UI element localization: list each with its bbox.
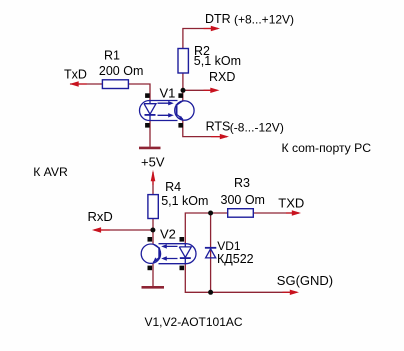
arrow TXD right <box>292 210 301 215</box>
wire V1 collector to node RXD <box>182 90 184 100</box>
arrow RXD right <box>210 88 219 93</box>
diode VD1 <box>205 248 216 258</box>
svg-text:R4: R4 <box>165 180 181 194</box>
resistor R1 <box>102 80 128 89</box>
resistor R3 <box>228 209 254 218</box>
resistor R4 <box>148 195 158 219</box>
wire TxD to R1 <box>70 83 102 85</box>
svg-text:К AVR: К AVR <box>33 165 68 179</box>
arrow +5V up <box>151 170 156 182</box>
svg-text:V1,V2-AOT101AC: V1,V2-AOT101AC <box>145 315 243 329</box>
pad V1 pin2 <box>145 123 150 128</box>
node junction RxD <box>150 228 155 233</box>
svg-text:5,1 kOm: 5,1 kOm <box>161 194 208 208</box>
wire node RXD to R2 <box>182 73 184 90</box>
wire V2 LED anode to node VD1 top and R3 <box>185 213 227 244</box>
wire R3 to TXD <box>253 212 299 214</box>
wire R1 to V1 LED anode <box>128 84 150 101</box>
node junction RXD <box>181 88 186 93</box>
wire V1 emitter to RTS <box>183 121 227 137</box>
pad V1 pin1 <box>145 93 150 98</box>
wire node RxD left <box>94 229 153 231</box>
wire +5V to R4 <box>152 172 154 195</box>
svg-text:V2: V2 <box>160 227 176 242</box>
svg-text:TxD: TxD <box>64 67 87 81</box>
ground GND1 <box>139 147 161 150</box>
svg-text:(-8...-12V): (-8...-12V) <box>230 120 284 134</box>
svg-text:(+8...+12V): (+8...+12V) <box>234 12 294 26</box>
svg-text:VD1: VD1 <box>217 239 241 253</box>
svg-text:RTS: RTS <box>206 120 231 134</box>
arrow SG right <box>290 290 299 295</box>
svg-text:SG(GND): SG(GND) <box>277 273 333 288</box>
ground GND2 <box>142 286 165 289</box>
resistor R2 <box>178 49 188 74</box>
pad V2 pin2 <box>148 266 153 271</box>
optocoupler V2 <box>141 244 196 264</box>
svg-text:RxD: RxD <box>88 209 113 224</box>
wire node RxD to V2 collector <box>152 230 154 244</box>
wire V1 LED cathode to ground <box>149 121 151 147</box>
node junction VD1 bottom SG <box>208 290 213 295</box>
optocoupler V1 <box>140 101 195 121</box>
svg-text:К com-порту PC: К com-порту PC <box>282 141 372 155</box>
svg-text:5,1 kOm: 5,1 kOm <box>194 54 241 68</box>
pad V1 pin3 <box>178 123 183 128</box>
wire V2 LED cathode to SG <box>185 264 297 293</box>
wire R2 to DTR <box>183 29 218 49</box>
pad V2 pin4 <box>180 237 185 242</box>
svg-text:+5V: +5V <box>141 154 165 169</box>
svg-text:RXD: RXD <box>209 70 235 84</box>
wire V2 emitter to ground <box>152 264 154 286</box>
svg-text:200 Om: 200 Om <box>99 64 143 78</box>
wire R4 to node RxD <box>152 219 154 231</box>
pad V2 pin3 <box>180 266 185 271</box>
svg-text:V1: V1 <box>160 85 176 100</box>
pad V2 pin1 <box>148 237 153 242</box>
svg-text:КД522: КД522 <box>217 252 254 266</box>
arrow RTS right <box>220 134 229 139</box>
node junction VD1 top <box>208 211 213 216</box>
pad V1 pin4 <box>178 93 183 98</box>
arrow RxD left <box>92 227 101 232</box>
svg-text:R3: R3 <box>234 176 250 190</box>
svg-text:300 Om: 300 Om <box>221 193 265 207</box>
wire node RXD right <box>183 89 217 91</box>
arrow TxD left <box>70 81 79 86</box>
arrow DTR right <box>211 26 220 31</box>
svg-text:DTR: DTR <box>205 12 231 26</box>
svg-text:TXD: TXD <box>278 196 304 211</box>
wire VD1 branch <box>210 213 212 292</box>
svg-text:R1: R1 <box>104 49 120 63</box>
